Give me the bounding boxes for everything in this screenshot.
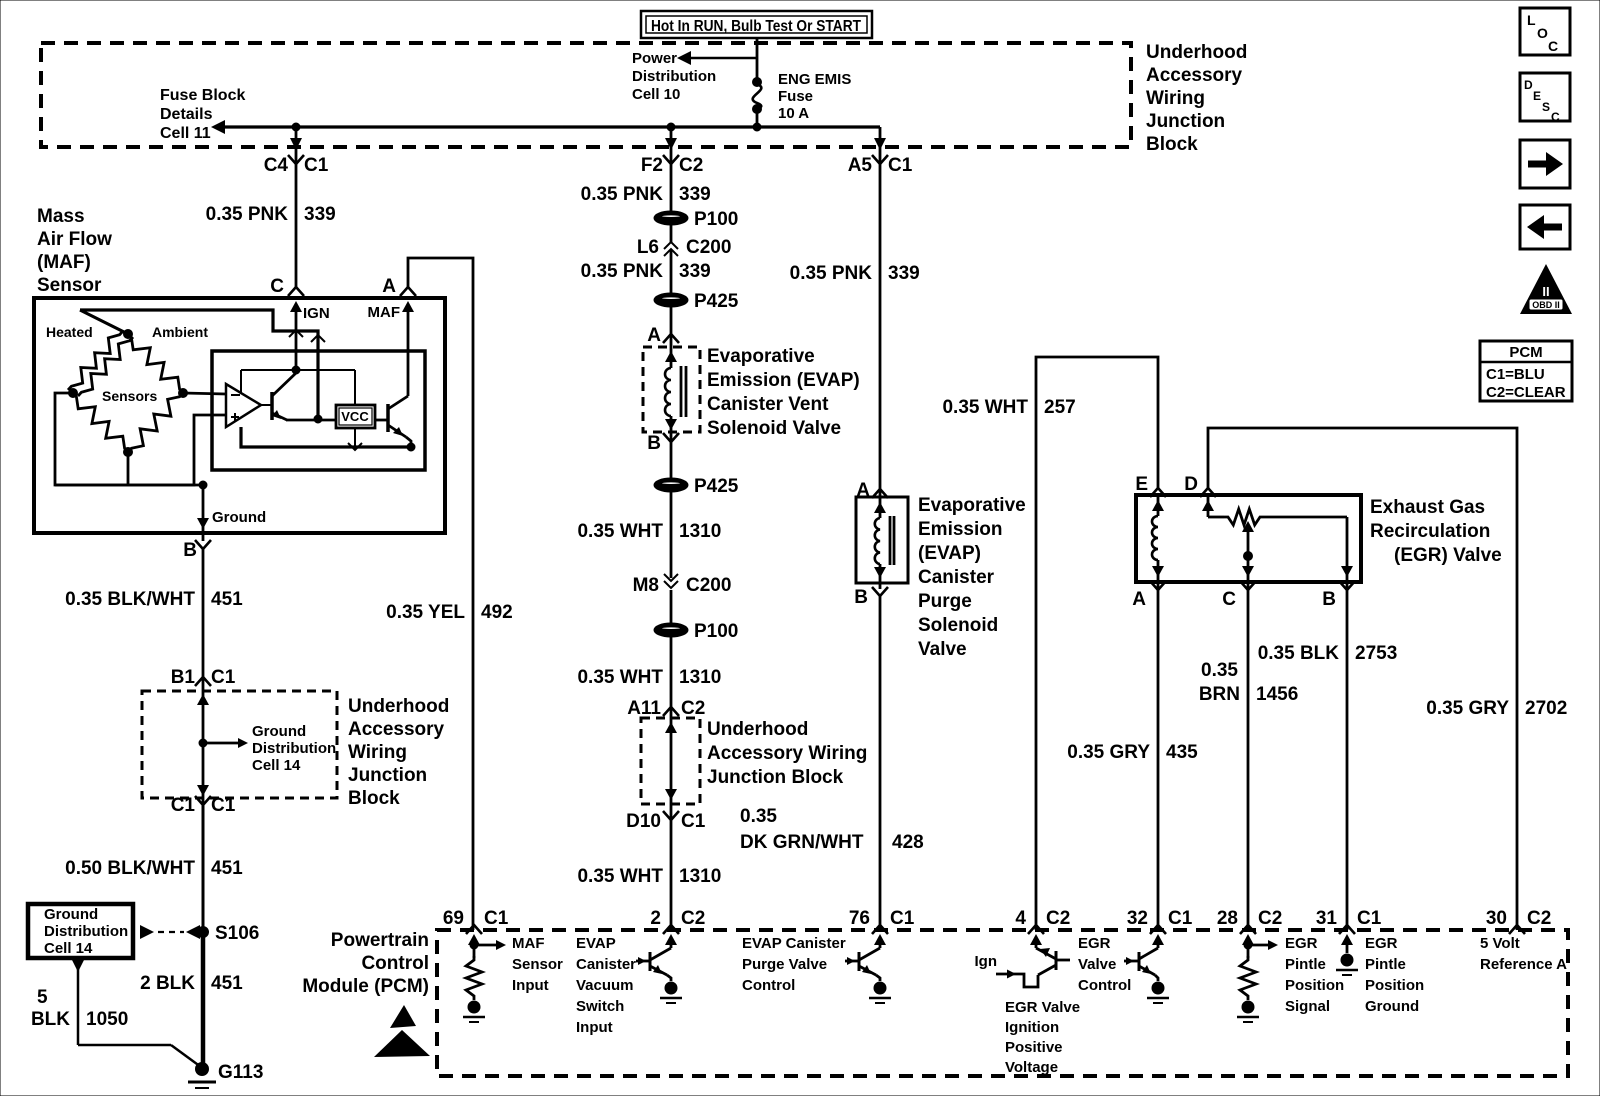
terminal B of purge solenoid — [854, 587, 888, 608]
svg-text:MAF: MAF — [368, 304, 401, 321]
svg-text:Distribution: Distribution — [632, 68, 716, 85]
svg-text:A: A — [647, 325, 661, 346]
wire: 0.50 BLK/WHT 451 — [202, 805, 205, 932]
terminal A of vent solenoid — [647, 325, 679, 346]
svg-text:Mass: Mass — [37, 206, 85, 227]
svg-text:Fuse Block: Fuse Block — [160, 87, 245, 104]
svg-text:(EGR) Valve: (EGR) Valve — [1394, 545, 1502, 566]
svg-text:Ground: Ground — [252, 723, 306, 740]
label: 0.35 WHT 1310 (1st) — [577, 521, 721, 542]
svg-text:C2: C2 — [1527, 908, 1551, 929]
label: 2 BLK 451 — [140, 973, 243, 994]
svg-text:EGR: EGR — [1365, 935, 1398, 952]
PCM pin 4 C2 — [1015, 908, 1070, 934]
svg-text:Underhood: Underhood — [348, 696, 449, 717]
connector M8 / C200 — [633, 574, 732, 596]
wire: C4 branch drop — [290, 127, 302, 164]
wire: P100 to C200 — [670, 224, 673, 242]
wire: 0.35 PNK 339 to MAF C — [295, 164, 298, 287]
svg-text:2753: 2753 — [1355, 643, 1397, 664]
terminal D of EGR valve — [1184, 474, 1216, 497]
node: IGN junction in MAF — [292, 366, 300, 374]
EVAP canister purge solenoid valve (case) — [856, 497, 908, 583]
wire: bridge left node loop to op-amp non-inverting input — [55, 393, 226, 485]
MAF sensor outer box — [34, 298, 445, 533]
svg-text:Ambient: Ambient — [152, 324, 208, 340]
svg-text:Positive: Positive — [1005, 1039, 1063, 1056]
label: 0.35 WHT 257 — [942, 397, 1075, 418]
svg-text:Canister Vent: Canister Vent — [707, 394, 829, 415]
label: 0.35 WHT 1310 (3rd) — [577, 866, 721, 887]
svg-text:Underhood: Underhood — [1146, 42, 1247, 63]
voltage regulator VCC — [336, 405, 375, 428]
connector A11 / C2 — [627, 698, 705, 719]
wire: F2 to P100 — [670, 164, 673, 212]
label: EVAP Canister Purge Valve Control — [742, 935, 846, 994]
svg-text:BLK: BLK — [31, 1009, 70, 1030]
svg-text:Exhaust Gas: Exhaust Gas — [1370, 497, 1485, 518]
svg-text:B: B — [1322, 589, 1336, 610]
PCM ground at pin 31 — [1336, 934, 1358, 975]
MAF feedback rail to op-amp — [241, 370, 355, 405]
terminal B of MAF sensor — [183, 540, 211, 561]
MAF ground rail and ground stem to terminal B — [55, 481, 266, 541]
svg-text:IGN: IGN — [303, 305, 330, 322]
svg-text:339: 339 — [888, 263, 920, 284]
dashed link to splice S106 — [140, 925, 200, 939]
bridge resistor lower-left — [73, 393, 128, 452]
svg-text:Underhood: Underhood — [707, 719, 808, 740]
svg-text:Distribution: Distribution — [252, 740, 336, 757]
icon: LOC button — [1520, 8, 1570, 55]
connector F2 / C2 — [641, 155, 703, 176]
svg-text:MAF: MAF — [512, 935, 545, 952]
svg-text:Canister: Canister — [576, 956, 636, 973]
svg-text:339: 339 — [304, 204, 336, 225]
svg-text:339: 339 — [679, 261, 711, 282]
wire: 0.35 YEL 492 from MAF A to PCM pin 69 — [408, 258, 473, 930]
svg-text:(MAF): (MAF) — [37, 252, 91, 273]
svg-text:Heated: Heated — [46, 324, 93, 340]
bridge resistor heated (top-left, doubled) — [68, 331, 133, 396]
wire: F2 branch drop — [665, 127, 677, 164]
wire: feed bus inside junction block — [211, 120, 880, 134]
EVAP canister vent solenoid valve (dashed case) — [643, 347, 700, 432]
grommet P100 — [654, 209, 738, 230]
connector D10 / C1 — [626, 811, 706, 832]
svg-text:M8: M8 — [633, 575, 659, 596]
svg-text:Cell 11: Cell 11 — [160, 125, 211, 142]
svg-text:D: D — [1184, 474, 1198, 495]
wire: A5 branch drop — [874, 127, 886, 164]
svg-text:C1: C1 — [211, 795, 236, 816]
svg-text:Valve: Valve — [918, 639, 967, 660]
connector B1 / C1 — [171, 667, 236, 688]
label: 0.35 BLK 2753 — [1258, 643, 1398, 664]
svg-text:1050: 1050 — [86, 1009, 128, 1030]
svg-text:Pintle: Pintle — [1365, 956, 1406, 973]
connector C4 / C1 — [264, 155, 329, 176]
label: Evaporative Emission (EVAP) Canister Purge Solenoid Valve — [918, 495, 1026, 660]
label: EGR Pintle Position Ground — [1365, 935, 1424, 1015]
connector C1 / C1 — [171, 795, 236, 816]
svg-text:C4: C4 — [264, 155, 289, 176]
svg-text:Purge Valve: Purge Valve — [742, 956, 827, 973]
grommet P100 (return) — [654, 621, 738, 642]
bridge resistor lower-right — [128, 393, 183, 452]
label: Underhood Accessory Wiring Junction Block (middle) — [707, 719, 867, 788]
PCM pin 76 C1 — [849, 908, 915, 934]
svg-text:339: 339 — [679, 184, 711, 205]
svg-text:69: 69 — [443, 908, 464, 929]
connector L6 / C200 — [637, 237, 732, 258]
svg-text:Cell 10: Cell 10 — [632, 86, 680, 103]
op-amp U1 — [226, 384, 261, 427]
label: EVAP Canister Vacuum Switch Input — [576, 935, 636, 1036]
svg-text:BRN: BRN — [1199, 684, 1240, 705]
svg-text:0.35 GRY: 0.35 GRY — [1426, 698, 1509, 719]
svg-text:Solenoid: Solenoid — [918, 615, 998, 636]
transistor Q1 — [261, 373, 336, 420]
junction block (ground distribution) dashed box — [142, 691, 337, 798]
label: 0.35 YEL 492 — [386, 602, 513, 623]
label: Underhood Accessory Wiring Junction Block (left) — [348, 696, 449, 809]
svg-text:Junction Block: Junction Block — [707, 767, 844, 788]
svg-text:EVAP Canister: EVAP Canister — [742, 935, 846, 952]
svg-text:F2: F2 — [641, 155, 663, 176]
powertrain control module (PCM) dashed case — [437, 930, 1568, 1076]
junction block 2 dashed box — [641, 718, 700, 804]
terminal A of MAF sensor — [382, 276, 416, 297]
svg-text:Signal: Signal — [1285, 998, 1330, 1015]
connector A5 / C1 — [848, 155, 913, 176]
wire: vent B to P425 — [670, 442, 673, 479]
label: 0.35 BRN 1456 — [1199, 660, 1298, 705]
svg-text:76: 76 — [849, 908, 870, 929]
svg-text:Junction: Junction — [348, 765, 427, 786]
svg-text:DK GRN/WHT: DK GRN/WHT — [740, 832, 864, 853]
svg-text:C1: C1 — [304, 155, 329, 176]
svg-text:B: B — [854, 587, 868, 608]
junction on bus at fuse — [753, 123, 761, 131]
svg-text:0.50 BLK/WHT: 0.50 BLK/WHT — [65, 858, 195, 879]
svg-text:257: 257 — [1044, 397, 1076, 418]
purge solenoid coil L with core — [874, 489, 894, 589]
wire: 0.35 BRN 1456 EGR C to PCM pin 28 — [1247, 590, 1250, 930]
svg-text:P100: P100 — [694, 621, 738, 642]
ground G113 — [188, 1062, 263, 1088]
label: 0.35 PNK 339 (lower) — [581, 261, 711, 282]
svg-text:II: II — [1542, 284, 1549, 299]
svg-text:EGR: EGR — [1078, 935, 1111, 952]
svg-text:Pintle: Pintle — [1285, 956, 1326, 973]
wire: bridge bottom to ground rail — [127, 452, 130, 485]
svg-text:L6: L6 — [637, 237, 659, 258]
svg-text:Control: Control — [361, 953, 429, 974]
svg-text:0.35: 0.35 — [1201, 660, 1238, 681]
MAF output wire to A with arrow — [368, 301, 415, 396]
svg-text:2702: 2702 — [1525, 698, 1567, 719]
MAF lower feedback rail — [241, 427, 411, 450]
vent solenoid coil L with core — [665, 334, 686, 442]
svg-text:Wiring: Wiring — [1146, 88, 1205, 109]
svg-text:0.35 WHT: 0.35 WHT — [577, 667, 663, 688]
svg-text:B: B — [183, 540, 197, 561]
label: 0.50 BLK/WHT 451 — [65, 858, 243, 879]
svg-text:0.35 WHT: 0.35 WHT — [577, 866, 663, 887]
terminal A of purge solenoid — [856, 480, 888, 501]
wire: P425 to vent solenoid A — [670, 306, 673, 334]
grommet P425 — [654, 291, 739, 312]
svg-text:ENG EMIS: ENG EMIS — [778, 71, 851, 88]
svg-text:Cell 14: Cell 14 — [252, 757, 301, 774]
reference: Fuse Block Details Cell 11 — [160, 87, 245, 142]
label: Underhood Accessory Wiring Junction Block — [1146, 42, 1247, 155]
svg-text:428: 428 — [892, 832, 924, 853]
junction on bus at C4 branch — [292, 123, 300, 131]
svg-text:S: S — [1542, 100, 1550, 114]
grommet P425 (return) — [654, 476, 739, 497]
svg-text:451: 451 — [211, 589, 243, 610]
svg-text:451: 451 — [211, 858, 243, 879]
svg-text:0.35 WHT: 0.35 WHT — [942, 397, 1028, 418]
PCM pintle signal resistor and ground at pin 28 — [1237, 934, 1278, 1022]
svg-text:Switch: Switch — [576, 998, 624, 1015]
svg-text:0.35 WHT: 0.35 WHT — [577, 521, 663, 542]
svg-text:435: 435 — [1166, 742, 1198, 763]
svg-text:Power: Power — [632, 50, 677, 67]
wire through junction block with arrows — [197, 677, 209, 805]
label: 5 Volt Reference A — [1480, 935, 1567, 973]
svg-text:Valve: Valve — [1078, 956, 1116, 973]
svg-text:Emission (EVAP): Emission (EVAP) — [707, 370, 860, 391]
junction on bus at F2 branch — [667, 123, 675, 131]
svg-text:C2: C2 — [681, 698, 705, 719]
svg-text:5 Volt: 5 Volt — [1480, 935, 1520, 952]
svg-text:C1: C1 — [890, 908, 915, 929]
svg-text:Purge: Purge — [918, 591, 972, 612]
svg-text:Control: Control — [742, 977, 795, 994]
label: EGR Valve Control — [1078, 935, 1131, 994]
svg-text:Details: Details — [160, 106, 213, 123]
svg-text:B: B — [647, 433, 661, 454]
svg-text:C2=CLEAR: C2=CLEAR — [1486, 384, 1566, 401]
wire: 0.35 DK GRN/WHT 428 to PCM pin 76 — [879, 596, 882, 930]
label: 0.35 WHT 1310 (2nd) — [577, 667, 721, 688]
svg-text:30: 30 — [1486, 908, 1507, 929]
svg-text:10 A: 10 A — [778, 105, 809, 122]
MAF top supply rail — [80, 310, 325, 419]
wire: C200 to P100 — [670, 590, 673, 624]
svg-text:O: O — [1537, 25, 1548, 41]
svg-text:Recirculation: Recirculation — [1370, 521, 1490, 542]
wire: 5 BLK 1050 from ground distribution — [72, 960, 201, 1067]
svg-text:Module (PCM): Module (PCM) — [302, 976, 429, 997]
svg-text:E: E — [1135, 474, 1148, 495]
svg-text:P425: P425 — [694, 476, 739, 497]
svg-text:Hot In RUN, Bulb Test Or START: Hot In RUN, Bulb Test Or START — [651, 18, 861, 35]
icon: back arrow button — [1520, 205, 1570, 249]
svg-text:32: 32 — [1127, 908, 1148, 929]
svg-text:0.35: 0.35 — [740, 806, 777, 827]
svg-text:C1: C1 — [888, 155, 913, 176]
svg-text:Block: Block — [1146, 134, 1198, 155]
label: 5 BLK 1050 — [31, 987, 128, 1030]
svg-text:Control: Control — [1078, 977, 1131, 994]
EGR potentiometer wiper — [1242, 521, 1254, 589]
EGR pintle position potentiometer — [1202, 495, 1353, 589]
svg-text:A: A — [382, 276, 396, 297]
svg-text:OBD II: OBD II — [1532, 300, 1560, 310]
svg-text:492: 492 — [481, 602, 513, 623]
terminal B of vent solenoid — [647, 433, 679, 454]
wire: VCC to Q2 base — [375, 419, 388, 422]
wire: 0.35 BLK/WHT 451 — [202, 549, 205, 677]
terminal E of EGR valve — [1135, 474, 1166, 497]
svg-text:Emission: Emission — [918, 519, 1002, 540]
svg-text:EGR Valve: EGR Valve — [1005, 999, 1080, 1016]
bridge resistor ambient (top-right) — [128, 334, 183, 393]
reference box: Ground Distribution Cell 14 — [28, 904, 133, 958]
MAF internal amplifier box — [212, 351, 425, 470]
svg-text:0.35 BLK/WHT: 0.35 BLK/WHT — [65, 589, 195, 610]
label: Evaporative Emission (EVAP) Canister Vent Solenoid Valve — [707, 346, 860, 439]
wire: EGR D loop to PCM pin 30 (0.35 GRY 2702) — [1208, 428, 1517, 930]
svg-text:C1: C1 — [171, 795, 196, 816]
node: Q2 emitter junction — [407, 443, 415, 451]
svg-text:5: 5 — [37, 987, 48, 1008]
label: 0.35 DK GRN/WHT 428 — [740, 806, 924, 853]
svg-text:(EVAP): (EVAP) — [918, 543, 981, 564]
svg-text:Distribution: Distribution — [44, 923, 128, 940]
icon: forward arrow button — [1520, 140, 1570, 188]
EGR solenoid coil — [1152, 495, 1164, 589]
svg-text:0.35 PNK: 0.35 PNK — [790, 263, 873, 284]
svg-text:Input: Input — [512, 977, 549, 994]
wire: 0.35 PNK 339 to purge solenoid — [879, 164, 882, 489]
svg-text:0.35 BLK: 0.35 BLK — [1258, 643, 1340, 664]
svg-text:Solenoid Valve: Solenoid Valve — [707, 418, 841, 439]
svg-text:C1: C1 — [1168, 908, 1193, 929]
terminal C of EGR valve — [1222, 581, 1256, 610]
PCM driver transistor and ground at pin 32 — [1124, 934, 1169, 1003]
svg-text:1310: 1310 — [679, 521, 721, 542]
wire: 0.35 WHT 1310 to PCM pin 2 — [670, 820, 673, 930]
wire: 0.35 BLK 2753 EGR B to PCM pin 31 — [1346, 590, 1349, 930]
terminal A of EGR valve — [1132, 581, 1166, 610]
svg-text:2: 2 — [650, 908, 661, 929]
svg-text:0.35 PNK: 0.35 PNK — [581, 184, 664, 205]
wire: 0.35 WHT 257 from PCM pin 4 to EGR E — [1036, 357, 1158, 930]
wire: 0.35 WHT 1310 to A11 — [670, 636, 673, 707]
svg-text:0.35 PNK: 0.35 PNK — [581, 261, 664, 282]
svg-text:D: D — [1524, 78, 1533, 92]
svg-text:E: E — [1533, 89, 1541, 103]
svg-text:0.35 YEL: 0.35 YEL — [386, 602, 465, 623]
label: 0.35 PNK 339 (upper) — [581, 184, 711, 205]
svg-text:C2: C2 — [1258, 908, 1282, 929]
svg-text:C: C — [1551, 110, 1560, 124]
svg-text:C: C — [1548, 38, 1558, 54]
ESD sensitivity symbol — [374, 1005, 430, 1057]
wire: 2 BLK 451 — [201, 932, 206, 1069]
svg-text:B1: B1 — [171, 667, 196, 688]
svg-text:Accessory: Accessory — [1146, 65, 1243, 86]
svg-text:Ground: Ground — [44, 906, 98, 923]
svg-text:D10: D10 — [626, 811, 661, 832]
label: EGR Pintle Position Signal — [1285, 935, 1344, 1015]
legend: PCM connector colors — [1480, 341, 1572, 401]
svg-text:Fuse: Fuse — [778, 88, 813, 105]
svg-text:4: 4 — [1015, 908, 1026, 929]
svg-text:Wiring: Wiring — [348, 742, 407, 763]
svg-text:Reference A: Reference A — [1480, 956, 1567, 973]
label: MAF Sensor Input — [512, 935, 563, 994]
svg-text:0.35 GRY: 0.35 GRY — [1067, 742, 1150, 763]
svg-text:Sensor: Sensor — [37, 275, 102, 296]
svg-text:Ground: Ground — [1365, 998, 1419, 1015]
label: Exhaust Gas Recirculation (EGR) Valve — [1370, 497, 1502, 566]
svg-text:S106: S106 — [215, 923, 259, 944]
svg-text:C1: C1 — [211, 667, 236, 688]
terminal B of EGR valve — [1322, 581, 1355, 610]
splice S106 — [198, 923, 260, 944]
svg-text:C1: C1 — [681, 811, 706, 832]
power feed box "Hot In RUN, Bulb Test Or START" — [641, 11, 872, 38]
svg-text:0.35 PNK: 0.35 PNK — [206, 204, 289, 225]
svg-text:1310: 1310 — [679, 667, 721, 688]
wire: bridge right node to op-amp inverting input — [183, 393, 226, 394]
svg-text:C200: C200 — [686, 575, 731, 596]
svg-text:C: C — [270, 276, 284, 297]
PCM pin 30 C2 — [1486, 908, 1551, 934]
svg-text:31: 31 — [1316, 908, 1338, 929]
MAF IGN supply wire with arrow — [289, 301, 330, 370]
PCM ignition transistor at pin 4 — [996, 934, 1070, 987]
terminal C of MAF sensor — [270, 276, 304, 297]
svg-text:EVAP: EVAP — [576, 935, 616, 952]
svg-text:C1: C1 — [484, 908, 509, 929]
icon: DESC button — [1520, 73, 1570, 124]
PCM driver transistor and ground at pin 2 — [636, 934, 682, 1003]
svg-text:28: 28 — [1217, 908, 1238, 929]
svg-text:Powertrain: Powertrain — [331, 930, 429, 951]
svg-text:Input: Input — [576, 1019, 613, 1036]
svg-text:Ground: Ground — [212, 509, 266, 526]
underhood accessory wiring junction block (dashed boundary) — [41, 43, 1131, 147]
node: bridge right — [179, 389, 188, 398]
svg-text:A: A — [1132, 589, 1146, 610]
node: emitter rail junction — [314, 415, 322, 423]
svg-text:A5: A5 — [848, 155, 873, 176]
svg-text:Accessory Wiring: Accessory Wiring — [707, 743, 867, 764]
svg-text:C2: C2 — [681, 908, 705, 929]
svg-text:Sensors: Sensors — [102, 388, 157, 404]
PCM pin 69 C1 — [443, 908, 509, 934]
svg-text:EGR: EGR — [1285, 935, 1318, 952]
svg-text:C200: C200 — [686, 237, 731, 258]
svg-text:C1: C1 — [1357, 908, 1382, 929]
PCM pin 28 C2 — [1217, 908, 1282, 934]
svg-text:Canister: Canister — [918, 567, 995, 588]
EGR valve case — [1136, 495, 1361, 582]
svg-text:C2: C2 — [679, 155, 703, 176]
svg-text:Ignition: Ignition — [1005, 1019, 1059, 1036]
svg-text:Junction: Junction — [1146, 111, 1225, 132]
svg-text:Cell 14: Cell 14 — [44, 940, 93, 957]
svg-text:A11: A11 — [627, 698, 661, 719]
label: 0.35 BLK/WHT 451 — [65, 589, 243, 610]
